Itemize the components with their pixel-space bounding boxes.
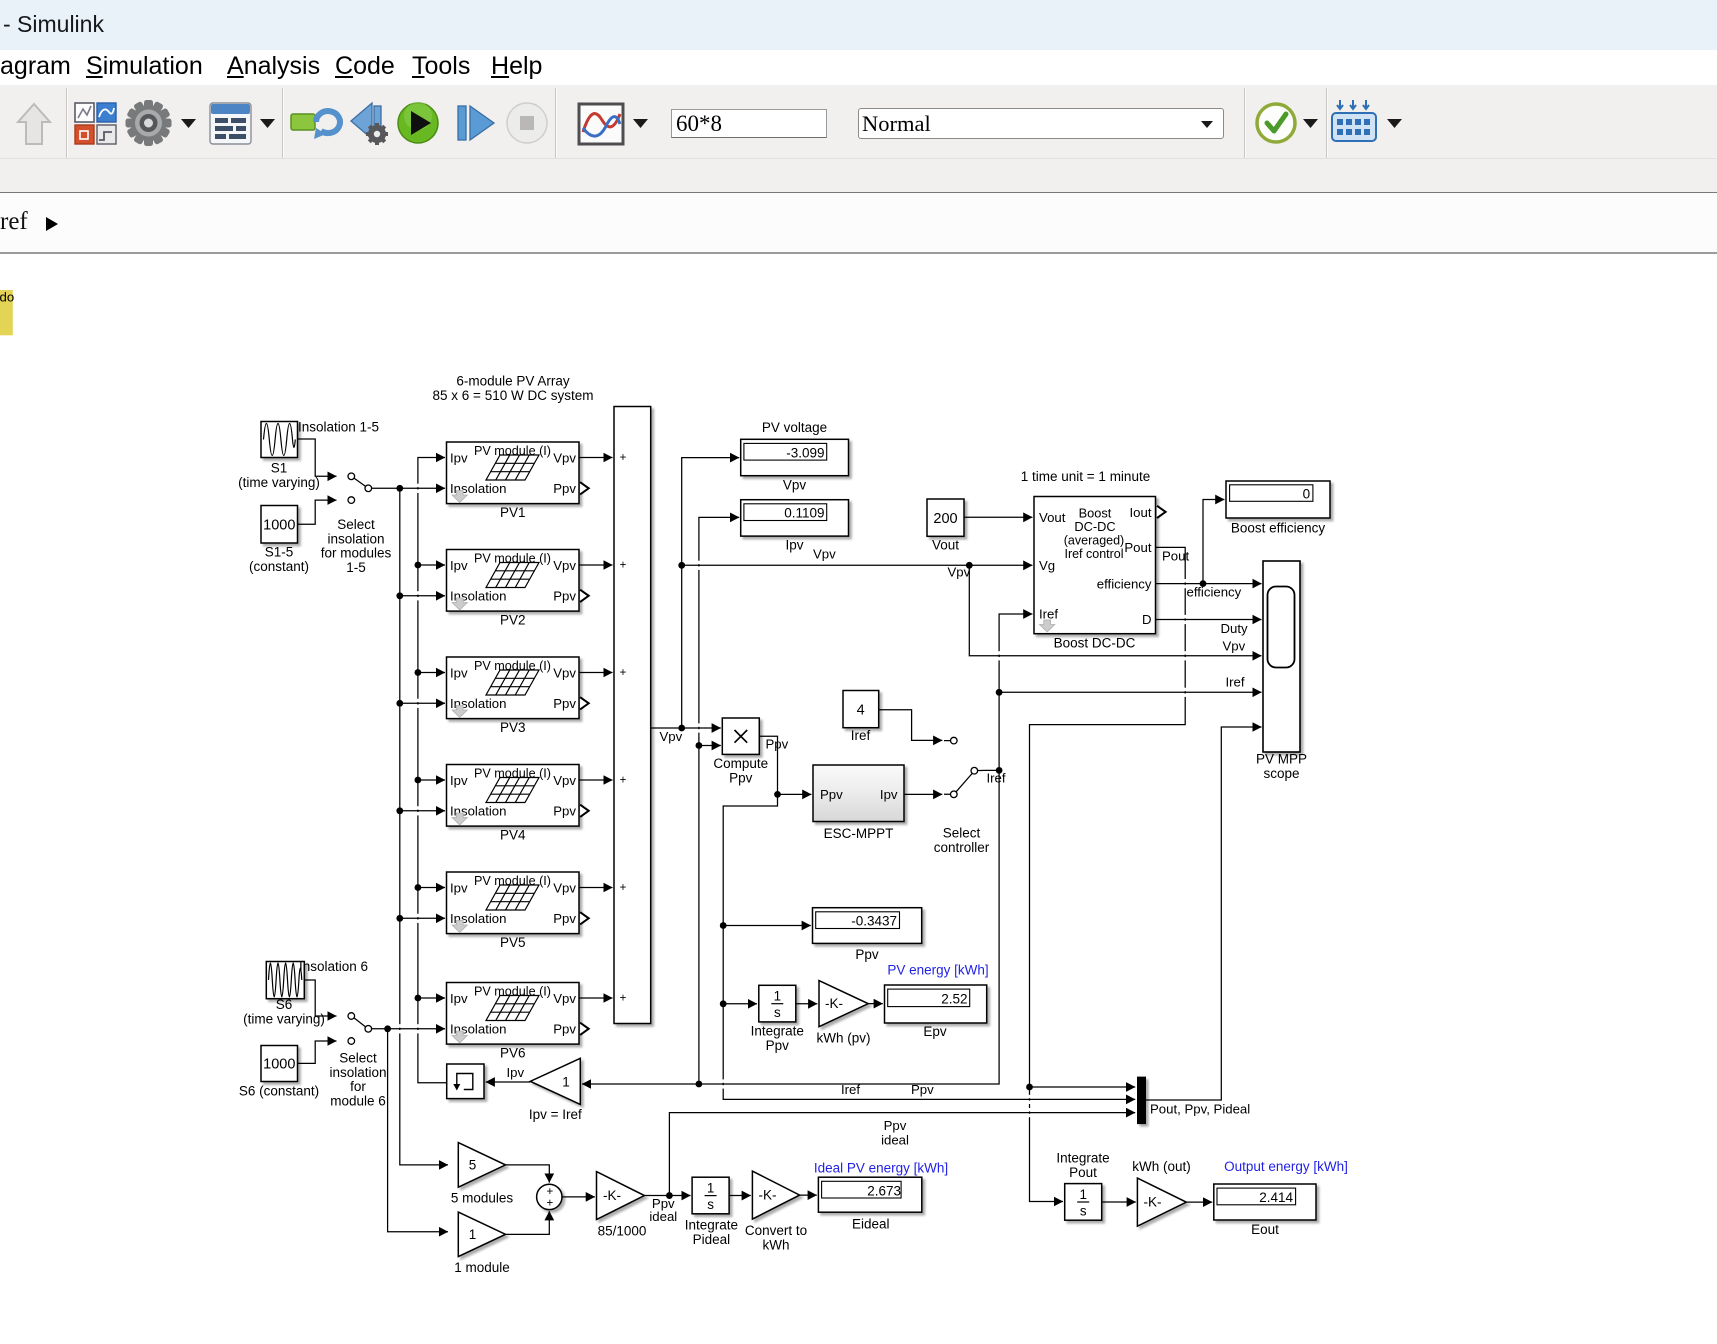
block constant 200 (Vout) xyxy=(927,499,964,553)
svg-text:4: 4 xyxy=(857,703,865,719)
toolbar dropdown arrow 3 xyxy=(633,119,648,128)
svg-text:Ppv: Ppv xyxy=(884,1118,907,1133)
svg-text:1 module: 1 module xyxy=(454,1260,510,1275)
wire: Add output Vpv to Compute Ppv and displays xyxy=(651,458,739,744)
svg-text:2.52: 2.52 xyxy=(941,992,967,1007)
block ESC-MPPT xyxy=(813,765,904,841)
wire: constant 200 to Boost Vout xyxy=(964,516,1032,518)
block Boost DC-DC xyxy=(1034,497,1166,651)
svg-text:PV voltage: PV voltage xyxy=(762,420,827,435)
annotation: partially visible yellow note xyxy=(0,290,14,336)
svg-text:-K-: -K- xyxy=(825,996,843,1011)
svg-text:insolation: insolation xyxy=(327,531,384,546)
svg-text:Iref control: Iref control xyxy=(1064,547,1123,561)
wires: PV module Vpv outputs to Add block xyxy=(579,458,613,999)
wire: mux output to scope input 5 xyxy=(1146,727,1262,1100)
wire: S1 to switch Select insolation 1-5 xyxy=(298,439,337,476)
svg-text:Pout: Pout xyxy=(1069,1165,1097,1180)
svg-text:Select: Select xyxy=(339,1051,377,1066)
wire: Convert to kWh to Eideal display xyxy=(800,1194,817,1196)
switch: Select controller xyxy=(934,737,990,855)
display Ppv (-0.3437) xyxy=(813,908,922,962)
wire: 5 modules gain to sum xyxy=(506,1165,550,1183)
svg-text:D: D xyxy=(1142,612,1152,627)
svg-text:Ppv: Ppv xyxy=(820,787,843,802)
toolbar dropdown arrow 2 xyxy=(260,119,275,128)
svg-text:-0.3437: -0.3437 xyxy=(851,914,897,929)
wire: S6 constant to switch Select insolation module 6 xyxy=(298,1041,337,1063)
toolbar icon: run (green play) xyxy=(398,102,438,143)
gain kWh (out) xyxy=(1132,1159,1191,1226)
svg-text:+: + xyxy=(620,882,627,894)
block PV MPP scope xyxy=(1256,561,1307,781)
svg-text:Vpv: Vpv xyxy=(1223,639,1246,654)
block constant 4 (Iref) xyxy=(843,691,879,744)
block PV5 xyxy=(447,872,589,950)
svg-text:Compute: Compute xyxy=(713,756,768,771)
toolbar icon: model configuration list xyxy=(210,103,251,144)
svg-text:Iref: Iref xyxy=(851,728,871,743)
svg-text:PV1: PV1 xyxy=(500,505,526,520)
toolbar dropdown arrow 5 xyxy=(1387,119,1402,128)
svg-text:6-module PV Array: 6-module PV Array xyxy=(456,374,570,389)
mux Pout, Ppv, Pideal xyxy=(1137,1077,1250,1125)
annotation: 6-module PV Array title xyxy=(433,374,594,403)
svg-text:-3.099: -3.099 xyxy=(786,445,824,460)
toolbar icon: step forward xyxy=(458,106,494,140)
block PV3 xyxy=(447,657,589,735)
wire: gain output to rate transition xyxy=(486,1081,531,1083)
toolbar icon: connect (green block + blue loop) xyxy=(291,111,340,139)
gain 5 modules xyxy=(451,1143,514,1206)
svg-text:1: 1 xyxy=(469,1227,477,1242)
svg-text:S6 (constant): S6 (constant) xyxy=(239,1084,319,1099)
svg-text:Duty: Duty xyxy=(1221,621,1249,636)
annotation: Insolation 1-5 xyxy=(298,420,379,435)
svg-text:ideal: ideal xyxy=(881,1132,909,1147)
svg-text:Iref: Iref xyxy=(987,771,1006,786)
svg-text:Boost DC-DC: Boost DC-DC xyxy=(1054,636,1136,651)
toolbar dropdown arrow 1 xyxy=(181,119,196,128)
svg-text:Insolation 1-5: Insolation 1-5 xyxy=(298,420,379,435)
svg-text:Integrate: Integrate xyxy=(685,1218,738,1233)
svg-text:PV4: PV4 xyxy=(500,828,526,843)
toolbar icon: scope/simulation data xyxy=(579,104,623,144)
wire: Integrate Pideal to Convert to kWh xyxy=(729,1195,751,1197)
svg-text:(time varying): (time varying) xyxy=(238,475,320,490)
svg-text:Vout: Vout xyxy=(1039,510,1066,525)
svg-text:(averaged): (averaged) xyxy=(1064,533,1124,547)
toolbar icon: stop (disabled) xyxy=(507,103,547,143)
svg-text:Pout: Pout xyxy=(1162,549,1189,564)
svg-text:PV5: PV5 xyxy=(500,935,526,950)
block PV4 xyxy=(447,765,589,843)
svg-text:for modules: for modules xyxy=(321,546,392,561)
wire: Boost D output to scope (Duty) xyxy=(1156,620,1262,690)
toolbar icon: up arrow (disabled) xyxy=(18,104,50,144)
svg-text:efficiency: efficiency xyxy=(1187,585,1242,600)
svg-text:PV6: PV6 xyxy=(500,1046,526,1061)
svg-text:controller: controller xyxy=(934,840,990,855)
wire: Integrate Pout to kWh (out) gain xyxy=(1102,1201,1136,1203)
block S6 sine source xyxy=(243,962,325,1027)
svg-text:S1-5: S1-5 xyxy=(265,545,294,560)
svg-text:scope: scope xyxy=(1263,766,1299,781)
block Integrate Ppv xyxy=(751,985,804,1053)
wire: insolation 6 net to PV6 and 1 module gain xyxy=(377,1025,448,1231)
svg-text:PV2: PV2 xyxy=(500,613,526,628)
svg-text:85/1000: 85/1000 xyxy=(598,1224,647,1239)
svg-text:Ipv: Ipv xyxy=(880,787,898,802)
wire: Vpv branch down to PV MPP scope xyxy=(969,565,1261,656)
svg-text:kWh (out): kWh (out) xyxy=(1132,1159,1191,1174)
switch: Select insolation for module 6 xyxy=(329,1013,386,1109)
svg-text:2.414: 2.414 xyxy=(1259,1190,1293,1205)
svg-text:do: do xyxy=(0,290,14,305)
svg-text:Ppv: Ppv xyxy=(855,947,879,962)
svg-text:Iref: Iref xyxy=(1226,675,1245,690)
svg-text:-K-: -K- xyxy=(1144,1195,1162,1210)
block S6 constant 1000 xyxy=(239,1046,319,1099)
display Epv (2.52) xyxy=(885,985,987,1039)
annotation: PV energy [kWh] xyxy=(887,963,988,978)
wire: Boost efficiency output to scope and display xyxy=(1156,500,1262,600)
wire: Ipv vertical distribution (display, Compute Ppv) xyxy=(696,517,740,1087)
svg-text:Ipv: Ipv xyxy=(785,538,803,553)
wire: constant 4 to Select controller switch xyxy=(879,710,943,741)
svg-text:0: 0 xyxy=(1303,486,1311,501)
svg-text:+: + xyxy=(620,667,627,679)
gain 1 module xyxy=(454,1212,510,1275)
block PV1 xyxy=(447,442,589,520)
svg-text:5 modules: 5 modules xyxy=(451,1191,514,1206)
gain Ipv = Iref (left pointing, value 1) xyxy=(507,1058,582,1122)
block rate transition (Ipv loop) xyxy=(447,1064,484,1099)
gain kWh (pv) xyxy=(817,981,871,1046)
svg-text:Select: Select xyxy=(943,826,981,841)
wire: insolation 1-5 net to PV modules xyxy=(377,485,448,1165)
svg-text:1000: 1000 xyxy=(263,1057,295,1073)
block Add (sum of Vpv) xyxy=(614,407,651,1024)
svg-text:+: + xyxy=(620,775,627,787)
svg-text:Vout: Vout xyxy=(932,538,959,553)
svg-text:Vpv: Vpv xyxy=(660,729,683,744)
svg-text:Ppv: Ppv xyxy=(766,1038,790,1053)
wire: Vpv long run to Boost Vg xyxy=(678,547,1032,580)
svg-text:PV energy [kWh]: PV energy [kWh] xyxy=(887,963,988,978)
svg-text:Vpv: Vpv xyxy=(948,565,971,580)
wire: 1 module gain to sum xyxy=(506,1211,550,1234)
svg-text:Ppv: Ppv xyxy=(729,770,753,785)
svg-text:Pout, Ppv, Pideal: Pout, Ppv, Pideal xyxy=(1150,1102,1250,1117)
svg-text:Vpv: Vpv xyxy=(783,478,807,493)
svg-text:Integrate: Integrate xyxy=(751,1024,804,1039)
svg-text:-K-: -K- xyxy=(759,1188,777,1203)
svg-text:0.1109: 0.1109 xyxy=(784,506,824,521)
svg-text:(time varying): (time varying) xyxy=(243,1012,325,1027)
svg-text:Convert to: Convert to xyxy=(745,1223,807,1238)
svg-text:200: 200 xyxy=(933,511,957,527)
svg-text:insolation: insolation xyxy=(329,1065,386,1080)
svg-text:for: for xyxy=(350,1079,366,1094)
display Eout (2.414) xyxy=(1214,1184,1316,1237)
svg-text:Eout: Eout xyxy=(1251,1222,1279,1237)
annotation: Insolation 6 xyxy=(299,959,368,974)
svg-text:+: + xyxy=(620,993,627,1005)
svg-text:Pideal: Pideal xyxy=(693,1232,731,1247)
display Boost efficiency (0) xyxy=(1226,481,1330,536)
svg-text:1: 1 xyxy=(562,1074,570,1089)
display PV voltage (Vpv) xyxy=(741,420,849,493)
svg-text:S6: S6 xyxy=(276,997,293,1012)
svg-text:-K-: -K- xyxy=(603,1188,621,1203)
wire: ESC-MPPT output to Select controller switch xyxy=(904,793,942,795)
annotation: 1 time unit = 1 minute xyxy=(1021,469,1150,484)
toolbar icon: library browser grid xyxy=(75,103,116,144)
svg-text:+: + xyxy=(620,560,627,572)
annotation: Output energy [kWh] xyxy=(1224,1159,1348,1174)
wire: sum to 85/1000 gain xyxy=(562,1196,595,1198)
block S1 sine source xyxy=(238,422,320,491)
svg-text:5: 5 xyxy=(469,1157,477,1172)
toolbar dropdown arrow 4 xyxy=(1303,119,1318,128)
block Compute Ppv (product) xyxy=(713,718,768,785)
svg-text:PV MPP: PV MPP xyxy=(1256,752,1307,767)
svg-text:Ideal PV energy [kWh]: Ideal PV energy [kWh] xyxy=(814,1161,948,1176)
block Integrate Pideal xyxy=(685,1177,738,1247)
display Eideal (2.673) xyxy=(818,1177,921,1231)
svg-text:85 x 6 = 510 W DC system: 85 x 6 = 510 W DC system xyxy=(433,388,594,403)
svg-text:kWh: kWh xyxy=(763,1237,790,1252)
svg-text:Ipv: Ipv xyxy=(507,1065,525,1080)
toolbar icon: update diagram (green check) xyxy=(1257,104,1295,142)
svg-text:Epv: Epv xyxy=(923,1024,947,1039)
gain 85/1000 xyxy=(597,1172,647,1239)
svg-text:(constant): (constant) xyxy=(249,559,309,574)
wire: S6 to switch Select insolation module 6 xyxy=(304,980,336,1016)
svg-text:Ipv = Iref: Ipv = Iref xyxy=(529,1107,582,1122)
svg-text:Insolation 6: Insolation 6 xyxy=(299,959,368,974)
combo dropdown arrow xyxy=(1200,120,1212,127)
svg-text:Select: Select xyxy=(337,517,375,532)
svg-text:efficiency: efficiency xyxy=(1097,576,1152,591)
svg-text:ESC-MPPT: ESC-MPPT xyxy=(824,826,894,841)
svg-text:PV3: PV3 xyxy=(500,720,526,735)
wire: kWh (out) to Eout display xyxy=(1186,1201,1212,1203)
block PV2 xyxy=(447,550,589,628)
svg-text:ideal: ideal xyxy=(649,1209,677,1224)
wire: Ppv ideal net (to Integrate Pideal and mux) xyxy=(644,1113,1135,1224)
svg-text:Pout: Pout xyxy=(1124,540,1151,555)
svg-text:+: + xyxy=(546,1198,553,1210)
svg-text:kWh (pv): kWh (pv) xyxy=(817,1031,871,1046)
block Integrate Pout xyxy=(1056,1151,1109,1221)
svg-text:+: + xyxy=(546,1186,553,1198)
svg-text:Eideal: Eideal xyxy=(852,1216,890,1231)
gain Convert to kWh xyxy=(745,1171,807,1252)
svg-text:+: + xyxy=(620,452,627,464)
svg-text:2.673: 2.673 xyxy=(867,1183,901,1198)
svg-text:Vpv: Vpv xyxy=(813,547,836,562)
block S1-5 constant 1000 xyxy=(249,506,309,575)
svg-text:Iref: Iref xyxy=(841,1082,860,1097)
svg-text:Iout: Iout xyxy=(1130,505,1152,520)
svg-text:1 time unit = 1 minute: 1 time unit = 1 minute xyxy=(1021,469,1150,484)
wire: Integrate Ppv to kWh (pv) gain xyxy=(796,1003,817,1005)
wire: Boost Pout output to mux and Integrate Pout xyxy=(1026,547,1189,1201)
switch: Select insolation for modules 1-5 xyxy=(321,473,392,575)
toolbar icon: step back (blue arrow with gear) xyxy=(351,103,388,145)
sum (add insolations) xyxy=(537,1184,562,1209)
svg-text:module 6: module 6 xyxy=(330,1094,386,1109)
svg-text:DC-DC: DC-DC xyxy=(1074,519,1115,534)
block PV6 xyxy=(447,983,589,1061)
annotation: Ideal PV energy [kWh] xyxy=(814,1161,948,1176)
svg-text:Iref: Iref xyxy=(1039,607,1058,622)
wire: kWh (pv) to Epv display xyxy=(868,1003,883,1005)
svg-text:Output energy [kWh]: Output energy [kWh] xyxy=(1224,1159,1348,1174)
toolbar icon: property inspector (keyboard with arrows) xyxy=(1332,100,1376,141)
svg-text:S1: S1 xyxy=(271,461,288,476)
toolbar icon: gear xyxy=(126,100,172,146)
svg-text:1-5: 1-5 xyxy=(346,560,366,575)
svg-text:1000: 1000 xyxy=(263,518,295,534)
wire: Iref net (switch output to Boost Iref, scope, gain, Ipv line) xyxy=(582,614,1262,1097)
svg-text:Boost efficiency: Boost efficiency xyxy=(1231,521,1326,536)
svg-text:Integrate: Integrate xyxy=(1056,1151,1109,1166)
wire: S1-5 constant to switch Select insolation 1-5 xyxy=(298,500,337,524)
display Ipv xyxy=(741,500,849,553)
wire: Ipv feedback line to all PV modules xyxy=(415,458,447,1083)
svg-text:Vg: Vg xyxy=(1039,558,1055,573)
wire crossing gaps xyxy=(399,484,1187,1118)
wire: Compute Ppv output (Ppv net) xyxy=(720,736,1135,1099)
